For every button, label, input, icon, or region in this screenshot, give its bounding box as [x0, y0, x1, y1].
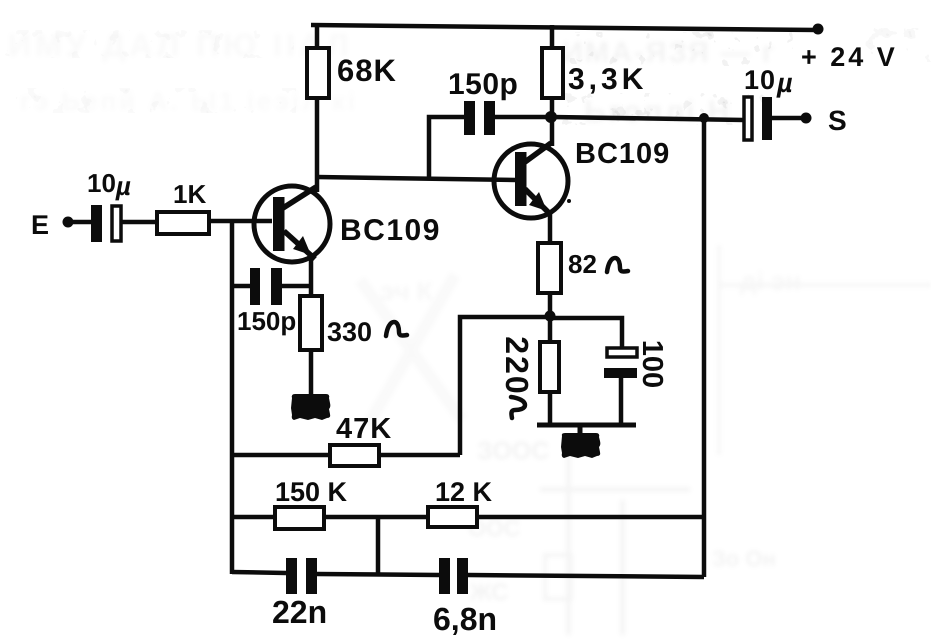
- wire 22n to 6.8n: [317, 574, 439, 575]
- ground (emitter network): [561, 433, 600, 458]
- wire Q2 emitter down: [548, 213, 553, 243]
- wire 150p base-side leg: [232, 284, 250, 289]
- wire 47K row right: [379, 453, 460, 458]
- wire left column (base to bottom): [230, 221, 235, 574]
- ghost bleed-through smudge row below: [560, 93, 765, 125]
- wire 150p right leg: [495, 115, 548, 120]
- wire 3.3K to collector node: [550, 98, 555, 146]
- svg-text:68K: 68K: [337, 53, 397, 88]
- label E: [31, 210, 49, 240]
- svg-text:150p: 150p: [448, 68, 518, 101]
- wire ground stub: [578, 425, 583, 433]
- ghost bleed-through smudge near +24V: [558, 32, 793, 66]
- resistor 1K: [157, 179, 209, 234]
- wire 100u bottom leg: [619, 378, 624, 425]
- capacitor 150p (Q1): [237, 268, 296, 336]
- ghost bleed-through text row 2: [16, 88, 296, 113]
- svg-text:47K: 47K: [336, 413, 392, 445]
- ground (Q1 emitter): [291, 394, 330, 420]
- svg-text:10µ: 10µ: [744, 65, 794, 98]
- wire input dot to cap: [71, 220, 91, 225]
- capacitor 22n: [272, 558, 327, 630]
- capacitor 10u output: [744, 65, 794, 140]
- svg-text:E: E: [31, 210, 49, 240]
- svg-text:12 K: 12 K: [435, 477, 493, 507]
- wire junction to 100u column: [550, 318, 622, 348]
- wire cap to 1K: [121, 220, 157, 225]
- svg-text:330: 330: [327, 317, 372, 347]
- svg-text:100: 100: [636, 340, 668, 388]
- capacitor 100u bypass: [604, 340, 668, 388]
- resistor 12K: [428, 477, 493, 527]
- transistor Q1 BC109: [254, 186, 441, 262]
- wire collector node to output cap: [552, 117, 744, 120]
- svg-text:1K: 1K: [173, 179, 206, 209]
- capacitor 150p (interstage): [448, 68, 518, 135]
- wire emitter network bottom bar: [537, 423, 636, 428]
- node emitter network junction: [545, 311, 556, 322]
- svg-text:Ьгоплі Н: Ьгоплі Н: [584, 94, 732, 129]
- resistor 68K: [307, 48, 397, 98]
- wire Q2 base line: [317, 177, 516, 180]
- svg-text:220: 220: [499, 336, 535, 395]
- label +24V: [801, 42, 898, 72]
- svg-text:BC109: BC109: [575, 138, 670, 170]
- node feedback tap dot: [699, 113, 709, 123]
- resistor 3,3K: [542, 48, 647, 98]
- capacitor 6,8n: [433, 558, 497, 637]
- wire 47K row left: [232, 453, 330, 458]
- wire 220 bottom leg: [548, 392, 553, 425]
- svg-text:+ 24 V: + 24 V: [801, 42, 898, 72]
- svg-text:ді эн: ді эн: [740, 266, 801, 296]
- wire 150K row left: [232, 515, 275, 520]
- ghost marks mid right: [380, 245, 931, 455]
- node +24V rail end dot: [813, 24, 824, 35]
- svg-text:150p: 150p: [237, 306, 296, 336]
- resistor 150K: [275, 477, 348, 529]
- svg-text:BC109: BC109: [340, 214, 441, 247]
- ghost bleed-through text row 1: [4, 30, 294, 58]
- wire top supply rail: [311, 25, 818, 30]
- wire 68K branch from rail: [315, 25, 320, 50]
- svg-text:10µ: 10µ: [87, 168, 131, 201]
- wire 3.3K branch from rail: [550, 25, 555, 50]
- node input terminal dot: [63, 217, 74, 228]
- resistor 330: [300, 296, 407, 350]
- resistor 220: [499, 336, 559, 418]
- label S: [828, 105, 847, 136]
- svg-text:3,3K: 3,3K: [568, 63, 647, 96]
- wire 1K to Q1 base: [209, 219, 272, 224]
- wire feedback vertical: [702, 119, 707, 577]
- node S terminal dot: [801, 113, 812, 124]
- svg-text:эч К: эч К: [380, 276, 433, 306]
- ghost smudge top right corner: [862, 28, 931, 62]
- resistor 82: [538, 243, 628, 293]
- wire feedback 47K up-leg and horizontal to junction: [460, 317, 546, 455]
- wire output cap to S terminal: [772, 116, 802, 121]
- resistor 47K: [330, 413, 392, 466]
- svg-text:Зо Он: Зо Он: [712, 546, 776, 571]
- wire tap between 150K and 12K down: [376, 517, 381, 574]
- wire 68K to Q1 collector: [315, 98, 320, 192]
- wire Q1 emitter down: [309, 259, 314, 296]
- ghost marks bottom right (reverse-page schematic bleed): [468, 437, 776, 635]
- wire 150K to 12K: [324, 515, 428, 520]
- ghost diagonal bleed X: [360, 275, 462, 425]
- svg-text:ИМУ ДАЛ ПЮ ІІАЛ: ИМУ ДАЛ ПЮ ІІАЛ: [8, 27, 353, 63]
- capacitor 10u input: [87, 168, 131, 242]
- wire 12K to feedback vertical: [477, 515, 704, 520]
- node collector junction dot: [545, 111, 557, 123]
- wire 150p to emitter leg: [282, 284, 311, 289]
- svg-text:82: 82: [568, 249, 597, 279]
- svg-text:S: S: [828, 105, 847, 136]
- svg-text:150 K: 150 K: [275, 477, 348, 507]
- wire 330 to ground: [309, 350, 314, 394]
- wire 82 to emitter network junction: [548, 293, 553, 342]
- wire bottom rail left: [232, 572, 286, 573]
- wire 150p left leg: [429, 117, 464, 178]
- svg-text:6,8n: 6,8n: [433, 601, 497, 637]
- svg-text:22n: 22n: [272, 594, 327, 630]
- transistor Q2 BC109: [494, 138, 670, 218]
- wire 6.8n to feedback vertical: [468, 575, 704, 577]
- svg-text:ЗООС: ЗООС: [477, 437, 549, 465]
